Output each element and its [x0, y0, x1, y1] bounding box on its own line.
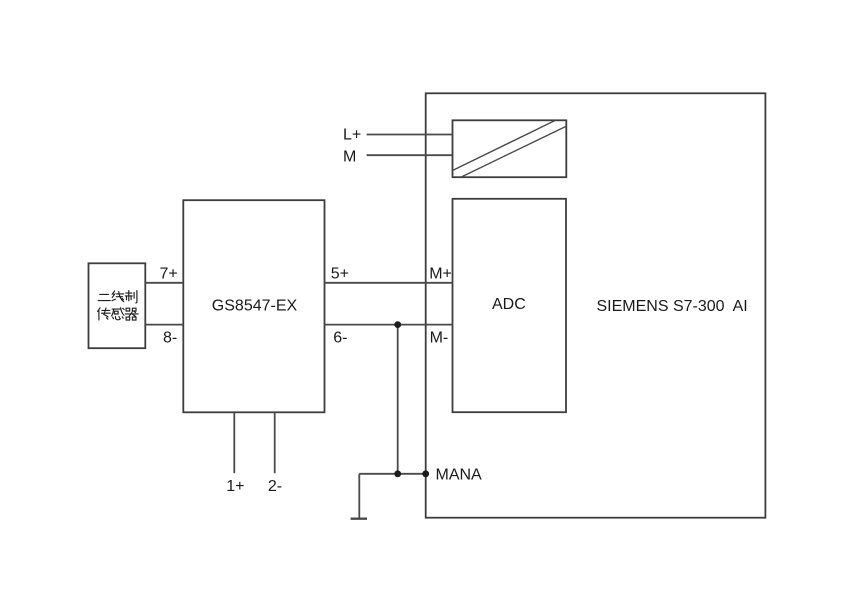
svg-text:8-: 8-	[163, 329, 177, 346]
wire terminal 1+	[233, 412, 235, 473]
module box U2 SIEMENS S7-300 AI	[426, 93, 766, 517]
线	[112, 291, 124, 302]
svg-text:L+: L+	[343, 127, 361, 144]
block ADC	[453, 199, 567, 412]
wire sensor 7+ to GS8547-EX	[145, 282, 183, 284]
ground	[351, 474, 367, 519]
传	[98, 308, 111, 320]
二	[98, 294, 110, 300]
wire 6- to M-	[325, 324, 453, 326]
wire MANA rail	[359, 473, 426, 475]
svg-text:7+: 7+	[160, 266, 178, 283]
sensor text line 1: 二线制 (hand-drawn glyphs)	[98, 291, 137, 303]
wire from 6- junction down to MANA rail	[397, 325, 399, 474]
sensor box (two-wire transmitter)	[89, 263, 146, 348]
junction MANA terminal on module edge	[422, 470, 429, 477]
isolation barrier / DC-DC converter symbol	[453, 120, 567, 177]
junction on 6- wire	[394, 321, 401, 328]
svg-text:GS8547-EX: GS8547-EX	[212, 297, 298, 314]
wire M	[367, 154, 453, 156]
junction on MANA rail	[394, 470, 401, 477]
wire L+	[367, 134, 453, 136]
svg-text:M+: M+	[429, 266, 452, 283]
感	[112, 308, 125, 320]
module box U1 GS8547-EX	[183, 200, 324, 412]
wire 5+ to M+	[325, 282, 453, 284]
制	[125, 291, 137, 303]
wire sensor 8- to GS8547-EX	[145, 324, 183, 326]
sensor text line 2: 传感器 (hand-drawn glyphs)	[98, 308, 139, 320]
svg-text:1+: 1+	[226, 478, 244, 495]
svg-text:MANA: MANA	[436, 467, 483, 484]
svg-text:M: M	[343, 149, 356, 166]
svg-text:SIEMENS S7-300 AI: SIEMENS S7-300 AI	[597, 298, 748, 315]
wire terminal 2-	[274, 412, 276, 473]
svg-text:2-: 2-	[268, 478, 282, 495]
svg-text:6-: 6-	[333, 329, 347, 346]
svg-text:M-: M-	[430, 329, 449, 346]
svg-text:5+: 5+	[331, 266, 349, 283]
器	[125, 308, 138, 320]
svg-text:ADC: ADC	[492, 296, 526, 313]
